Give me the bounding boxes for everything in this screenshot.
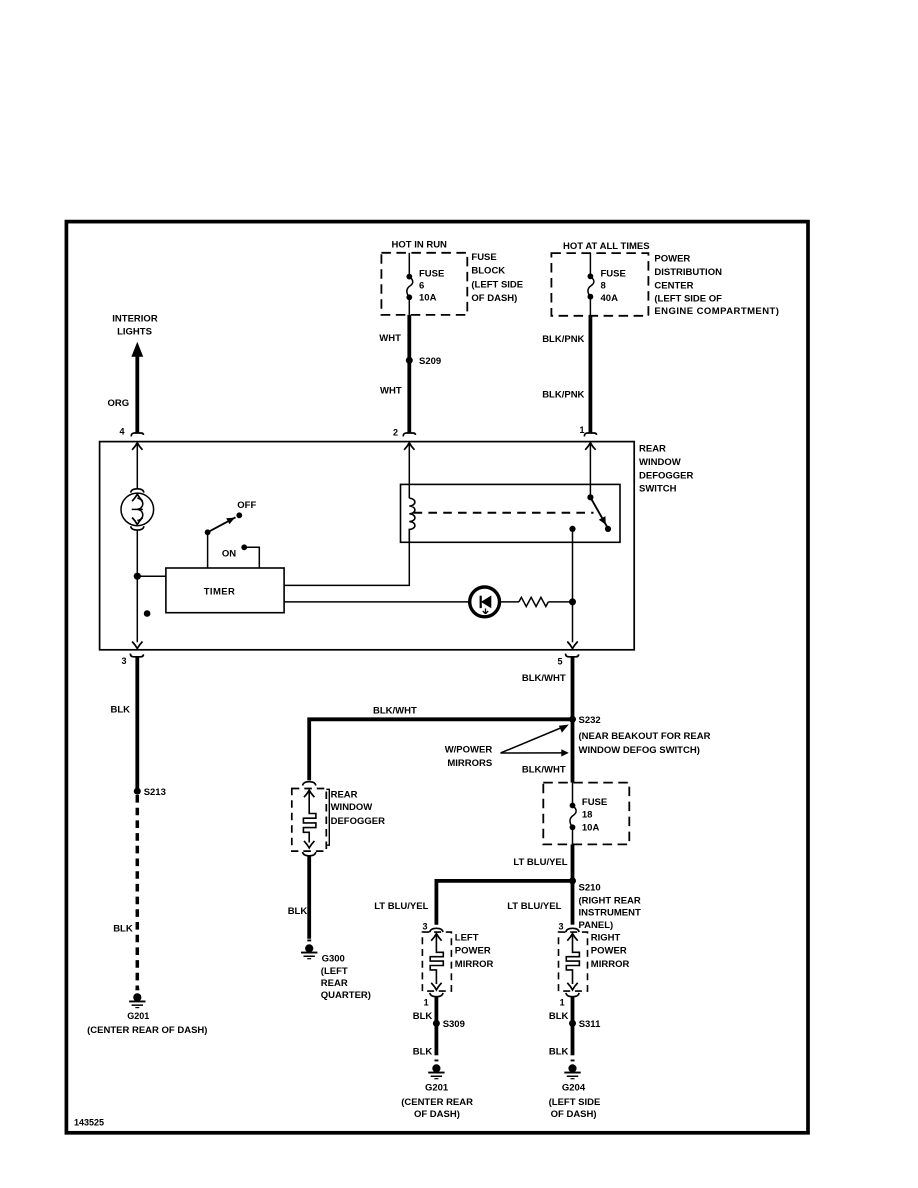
label RIGHT POWER MIRROR	[591, 932, 630, 970]
wire WHT fuse6 to S209	[407, 315, 411, 361]
svg-text:FUSE: FUSE	[601, 268, 626, 279]
wire lamp to pin 3	[136, 530, 138, 642]
svg-text:LT BLU/YEL: LT BLU/YEL	[507, 901, 561, 912]
svg-text:(CENTER REAR OF DASH): (CENTER REAR OF DASH)	[87, 1025, 207, 1036]
svg-text:(RIGHT REAR: (RIGHT REAR	[579, 895, 641, 906]
label (RIGHT REAR INSTRUMENT PANEL)	[579, 895, 641, 931]
ground G201 center	[428, 1060, 444, 1080]
svg-text:143525: 143525	[74, 1118, 104, 1128]
fuse 18 symbol	[570, 783, 577, 845]
svg-text:LT BLU/YEL: LT BLU/YEL	[374, 901, 428, 912]
svg-text:FUSE: FUSE	[471, 252, 496, 263]
svg-text:10A: 10A	[582, 823, 600, 834]
svg-text:BLOCK: BLOCK	[471, 266, 505, 277]
right power mirror motor component	[559, 932, 588, 991]
rear window defogger switch box	[100, 442, 635, 650]
svg-text:BLK: BLK	[413, 1011, 433, 1022]
svg-text:BLK/WHT: BLK/WHT	[522, 673, 566, 684]
svg-text:RIGHT: RIGHT	[591, 932, 621, 943]
wire pin4 to lamp	[136, 442, 138, 488]
svg-text:ENGINE COMPARTMENT): ENGINE COMPARTMENT)	[654, 306, 779, 317]
wire BLK pin3 to S213	[135, 657, 139, 791]
svg-text:LT BLU/YEL: LT BLU/YEL	[513, 857, 567, 868]
resistor R1	[519, 597, 548, 606]
svg-text:REAR: REAR	[321, 978, 348, 989]
svg-text:OF DASH): OF DASH)	[414, 1109, 460, 1120]
wire BLK/PNK fuse8 to pin 1	[589, 316, 593, 433]
svg-text:ON: ON	[222, 548, 236, 559]
wire WHT S209 to pin 2	[407, 360, 411, 433]
svg-text:QUARTER): QUARTER)	[321, 990, 371, 1001]
fuse block F18 dashed box	[543, 783, 629, 845]
svg-text:DEFOGGER: DEFOGGER	[639, 470, 694, 481]
wire resistor to node	[548, 601, 572, 603]
pin 2 connector	[403, 433, 415, 436]
right mirror bottom connector	[566, 993, 579, 997]
svg-text:(NEAR BEAKOUT FOR REAR: (NEAR BEAKOUT FOR REAR	[579, 731, 711, 742]
wire LT BLU/YEL branch S210 to left mirror	[436, 881, 572, 925]
wire timer to LED	[284, 601, 469, 603]
svg-text:MIRROR: MIRROR	[455, 959, 494, 970]
relay linkage dashed	[414, 512, 594, 514]
svg-text:BLK/WHT: BLK/WHT	[522, 764, 566, 775]
svg-text:WINDOW DEFOG SWITCH): WINDOW DEFOG SWITCH)	[579, 745, 700, 756]
wire pin2 to relay coil	[408, 442, 410, 498]
splice S232	[569, 716, 576, 723]
ground G300	[301, 940, 317, 960]
wire BLK S309 to G201	[434, 1023, 438, 1055]
svg-text:BLK: BLK	[413, 1047, 433, 1058]
svg-text:OF DASH): OF DASH)	[551, 1109, 597, 1120]
illumination lamp	[121, 493, 154, 526]
splice S209	[406, 357, 413, 364]
svg-text:CENTER: CENTER	[654, 281, 693, 292]
relay K1 box	[401, 484, 621, 542]
svg-text:DEFOGGER: DEFOGGER	[331, 816, 386, 827]
wire S232 to fuse 18	[571, 719, 575, 782]
svg-text:TIMER: TIMER	[204, 586, 236, 597]
relay coil L1	[409, 498, 415, 542]
fuse block F6 dashed box	[381, 253, 467, 315]
wire BLK/WHT branch S232 to defogger	[309, 719, 572, 780]
svg-text:S210: S210	[579, 882, 601, 893]
svg-text:1: 1	[424, 997, 429, 1007]
svg-text:INSTRUMENT: INSTRUMENT	[579, 907, 641, 918]
svg-text:POWER: POWER	[455, 946, 491, 957]
svg-text:BLK/WHT: BLK/WHT	[373, 706, 417, 717]
fuse 6 symbol	[406, 253, 412, 315]
node INTERIOR LIGHTS label	[112, 313, 158, 337]
svg-text:S213: S213	[144, 787, 166, 798]
callout arrow to S232 wire	[501, 725, 569, 754]
defogger label bracket	[326, 789, 329, 845]
svg-text:WINDOW: WINDOW	[639, 457, 681, 468]
svg-text:6: 6	[419, 280, 424, 291]
splice S213	[134, 788, 141, 795]
label LEFT POWER MIRROR	[455, 932, 494, 970]
wire pin1 to relay switch	[589, 442, 591, 497]
label REAR WINDOW DEFOGGER	[331, 790, 386, 827]
svg-text:WHT: WHT	[380, 386, 402, 397]
left mirror top connector	[430, 928, 443, 932]
fuse 18 value labels	[582, 797, 607, 834]
lamp top connector arc	[131, 489, 144, 493]
svg-text:2: 2	[393, 427, 398, 437]
left mirror bottom connector	[430, 993, 443, 997]
svg-text:G201: G201	[127, 1011, 149, 1021]
svg-text:(LEFT SIDE: (LEFT SIDE	[549, 1097, 601, 1108]
wire BLK defogger to G300	[307, 856, 311, 939]
svg-text:S309: S309	[443, 1019, 465, 1030]
svg-text:18: 18	[582, 809, 593, 820]
wire LT BLU/YEL fuse18 to S210	[571, 844, 575, 881]
switch OFF contact	[205, 500, 257, 568]
splice S311	[569, 1020, 576, 1027]
svg-text:HOT IN RUN: HOT IN RUN	[392, 240, 448, 251]
svg-text:HOT AT ALL TIMES: HOT AT ALL TIMES	[563, 241, 650, 252]
svg-text:INTERIOR: INTERIOR	[112, 313, 158, 324]
svg-text:(LEFT SIDE: (LEFT SIDE	[471, 279, 523, 290]
svg-text:BLK/PNK: BLK/PNK	[542, 334, 584, 345]
svg-text:10A: 10A	[419, 292, 437, 303]
relay contact to pin 5	[569, 526, 575, 532]
svg-text:BLK: BLK	[288, 906, 308, 917]
label REAR WINDOW DEFOGGER SWITCH	[639, 444, 694, 495]
lamp bottom connector arc	[131, 526, 144, 530]
svg-text:OF DASH): OF DASH)	[471, 293, 517, 304]
label W/POWER MIRRORS	[445, 745, 493, 770]
svg-text:40A: 40A	[601, 293, 619, 304]
relay switch arm	[587, 494, 611, 532]
wire BLK right mirror to S311	[571, 997, 575, 1023]
splice S210	[569, 877, 576, 884]
label G300	[321, 953, 371, 1001]
wire BLK S311 to G204	[571, 1023, 575, 1055]
switch ON contact	[222, 544, 259, 568]
svg-text:LEFT: LEFT	[455, 932, 479, 943]
svg-text:POWER: POWER	[591, 946, 627, 957]
pin 3 internal arrow	[132, 642, 142, 649]
wire ORG from pin 4 up	[135, 355, 139, 433]
label POWER DISTRIBUTION CENTER	[654, 253, 779, 317]
power distribution center F8 dashed box	[551, 253, 648, 316]
wire BLK left mirror to S309	[434, 997, 438, 1023]
svg-text:3: 3	[121, 656, 126, 666]
svg-text:BLK: BLK	[549, 1047, 569, 1058]
left power mirror motor component	[422, 932, 451, 991]
rear window defogger grid component	[292, 782, 327, 856]
pin 1 connector	[584, 433, 596, 436]
svg-text:3: 3	[558, 922, 563, 932]
pin 4 connector	[131, 433, 143, 436]
fuse 8 value labels	[601, 268, 626, 303]
label (NEAR BEAKOUT FOR REAR WINDOW DEFOG SWITCH)	[579, 731, 711, 756]
label FUSE BLOCK (LEFT SIDE OF DASH)	[471, 252, 523, 304]
svg-text:BLK/PNK: BLK/PNK	[542, 390, 584, 401]
pin 5 internal arrow	[567, 642, 577, 649]
svg-text:(LEFT: (LEFT	[321, 966, 348, 977]
svg-text:8: 8	[601, 281, 606, 292]
svg-text:(CENTER REAR: (CENTER REAR	[401, 1097, 473, 1108]
arrow to interior lights	[131, 342, 143, 357]
pin 3 connector	[130, 654, 143, 657]
svg-text:1: 1	[579, 425, 584, 435]
svg-text:PANEL): PANEL)	[579, 920, 614, 931]
fuse 8 symbol	[588, 253, 594, 316]
svg-text:G201: G201	[425, 1083, 449, 1094]
ground G201	[129, 988, 145, 1008]
pin 4 internal arrow	[132, 443, 142, 450]
svg-text:DISTRIBUTION: DISTRIBUTION	[654, 267, 722, 278]
svg-text:BLK: BLK	[111, 704, 131, 715]
callout arrow to BLK/WHT wire	[501, 749, 569, 756]
svg-text:FUSE: FUSE	[582, 797, 607, 808]
pin 5 connector	[566, 654, 579, 657]
wire timer to relay coil	[284, 542, 409, 585]
svg-text:WINDOW: WINDOW	[331, 802, 373, 813]
svg-text:W/POWER: W/POWER	[445, 745, 493, 756]
svg-text:BLK: BLK	[549, 1011, 569, 1022]
svg-text:ORG: ORG	[108, 398, 130, 409]
svg-text:G204: G204	[562, 1083, 586, 1094]
junction node resistor/pin5	[569, 598, 576, 605]
svg-text:S232: S232	[579, 715, 601, 726]
wire BLK/WHT pin5 to S232	[571, 657, 575, 719]
svg-text:S209: S209	[419, 356, 441, 367]
pin 1 internal arrow	[585, 443, 595, 450]
svg-text:4: 4	[119, 427, 124, 437]
junction node lamp/timer	[134, 573, 141, 580]
svg-text:REAR: REAR	[639, 444, 666, 455]
label G204	[549, 1083, 601, 1120]
wire junction to timer	[137, 575, 166, 577]
splice S309	[433, 1020, 440, 1027]
svg-text:SWITCH: SWITCH	[639, 484, 677, 495]
timer U1 box	[166, 568, 284, 613]
wire BLK dashed S213 to G201	[136, 795, 140, 990]
label G201	[401, 1083, 473, 1120]
svg-text:BLK: BLK	[113, 924, 133, 935]
svg-text:G300: G300	[322, 953, 345, 964]
svg-text:MIRRORS: MIRRORS	[447, 758, 492, 769]
svg-text:WHT: WHT	[379, 333, 401, 344]
svg-text:5: 5	[557, 657, 562, 667]
svg-text:FUSE: FUSE	[419, 269, 444, 280]
pin 2 internal arrow	[404, 443, 414, 450]
ground G204	[564, 1060, 580, 1080]
border frame	[66, 222, 808, 1133]
svg-text:REAR: REAR	[331, 790, 358, 801]
svg-text:(LEFT SIDE OF: (LEFT SIDE OF	[654, 293, 722, 304]
svg-text:S311: S311	[579, 1019, 601, 1030]
svg-text:MIRROR: MIRROR	[591, 959, 630, 970]
fuse 6 value labels	[419, 269, 444, 304]
right mirror top connector	[566, 928, 579, 932]
wire relay contact down to pin 5	[572, 529, 574, 642]
svg-text:1: 1	[560, 997, 565, 1007]
svg-text:LIGHTS: LIGHTS	[117, 327, 152, 338]
wire S210 down to right mirror	[571, 881, 575, 925]
svg-text:OFF: OFF	[237, 500, 256, 511]
wire LED to resistor	[500, 601, 519, 603]
svg-text:3: 3	[422, 922, 427, 932]
LED indicator	[470, 587, 500, 617]
stray junction dot	[144, 610, 151, 617]
svg-text:POWER: POWER	[654, 253, 690, 264]
